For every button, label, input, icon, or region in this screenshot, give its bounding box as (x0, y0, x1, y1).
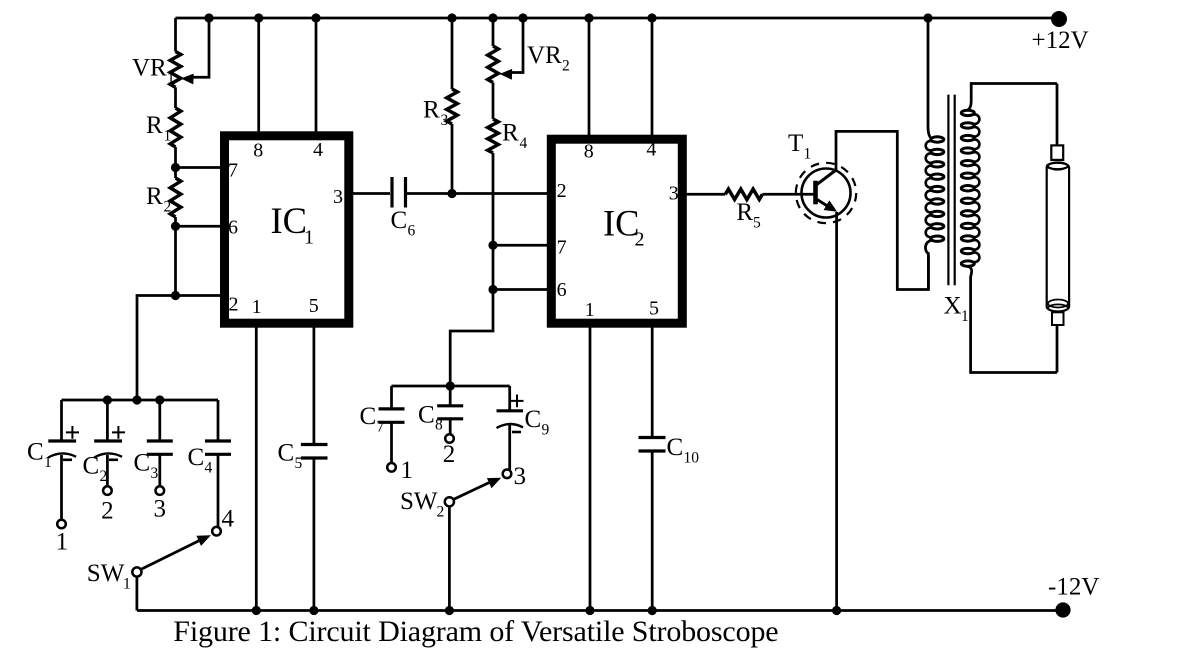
transformer X1 core (948, 95, 954, 286)
wire R5 to T1 base (762, 193, 814, 196)
C4 bottom lead (217, 454, 220, 527)
wire tube bottom lead (1056, 325, 1059, 373)
potentiometer VR2 (488, 46, 499, 83)
svg-text:C: C (418, 401, 435, 428)
transistor T1 emitter diagonal (816, 199, 830, 208)
svg-text:8: 8 (253, 140, 263, 162)
svg-text:C: C (27, 439, 44, 466)
capacitor C9 (electrolytic) top lead (508, 386, 511, 410)
C2 bottom lead (106, 455, 109, 486)
node pin4 on rail (311, 13, 320, 22)
C4 plates (205, 441, 231, 454)
switch SW2 pole circle (445, 497, 454, 506)
wire capacitor bank bus (62, 399, 219, 402)
wire VR1 to R1 (174, 87, 177, 108)
svg-text:3: 3 (151, 465, 159, 482)
wire VR1 top lead (174, 18, 177, 52)
capacitor C3 top lead (158, 400, 161, 440)
svg-text:4: 4 (205, 460, 213, 477)
svg-text:6: 6 (557, 279, 567, 301)
C3 plates (147, 441, 173, 454)
wire IC2 pin 3 to R5 (682, 193, 725, 196)
svg-text:1: 1 (123, 576, 131, 593)
capacitor C6 (392, 177, 406, 208)
C7 plates (379, 409, 405, 422)
wire IC2 pin 7 (493, 244, 552, 247)
svg-text:10: 10 (684, 450, 700, 467)
wire IC2 pin 5 down (651, 323, 654, 437)
capacitor C8 top lead (449, 386, 452, 406)
svg-text:C: C (134, 450, 151, 477)
svg-text:2: 2 (443, 441, 456, 468)
svg-text:1: 1 (804, 146, 812, 163)
node R3 on pin2 wire (447, 189, 456, 198)
node IC2 pin1 on bottom rail (585, 606, 594, 615)
svg-text:3: 3 (333, 186, 343, 208)
node emitter on bottom rail (832, 606, 841, 615)
svg-text:IC: IC (271, 200, 308, 241)
svg-text:2: 2 (100, 468, 108, 485)
svg-text:2: 2 (437, 504, 445, 521)
node pin2 junction (171, 291, 180, 300)
xenon tube body (1047, 163, 1069, 312)
svg-text:VR: VR (132, 55, 167, 82)
node IC2 pin4 on rail (647, 13, 656, 22)
node IC2 pin5 on bottom rail (648, 606, 657, 615)
svg-text:C: C (278, 440, 295, 467)
potentiometer VR1 (170, 52, 181, 88)
C8 bottom lead (449, 419, 452, 434)
wire tube top lead (1056, 84, 1059, 147)
node VR2 on rail (488, 13, 497, 22)
node IC2 pin6 junction (488, 285, 497, 294)
transformer X1 secondary winding (961, 110, 979, 266)
+12V terminal dot (1051, 11, 1067, 27)
wire top +12V rail (176, 17, 1060, 20)
transistor T1 emitter arrowhead (824, 200, 838, 211)
wire IC1 pin 5 down (313, 324, 316, 444)
wire IC1 pin 7 (176, 166, 222, 169)
wire SW2 to bottom rail (448, 506, 451, 610)
svg-text:5: 5 (309, 295, 319, 317)
wire IC1 pin 1 down to rail (255, 324, 258, 611)
svg-text:SW: SW (87, 560, 125, 587)
tube top rim ellipse (1047, 163, 1068, 169)
svg-text:SW: SW (400, 488, 438, 515)
C1 curved plate (48, 453, 76, 457)
wire T1 emitter down to rail (835, 212, 838, 611)
C3 bottom lead (158, 454, 161, 486)
wire transformer secondary top lead (968, 84, 1057, 111)
C2 plus sign (112, 426, 125, 439)
wire VR2 to R4 (492, 83, 495, 120)
svg-text:R: R (423, 97, 440, 124)
wire R4 bottom down to C8 bus (450, 153, 493, 386)
svg-text:4: 4 (520, 135, 528, 152)
wire IC1 pin 8 to rail (257, 18, 260, 135)
svg-text:2: 2 (164, 199, 172, 216)
resistor R4 (488, 119, 499, 153)
switch SW2 arrowhead (487, 478, 501, 489)
svg-text:2: 2 (101, 497, 114, 524)
wire R1 to junction (174, 147, 177, 178)
wire IC1 pin 4 to rail (315, 18, 318, 135)
node pin5 on bottom rail (309, 606, 318, 615)
C1 plus sign (66, 426, 79, 439)
node R3 on rail (447, 13, 456, 22)
tube bottom cap ellipse (1048, 304, 1068, 311)
C3 terminal circle (SW1 pos 3) (156, 486, 165, 495)
node bus at SW2 feed (446, 381, 455, 390)
svg-text:R: R (146, 112, 163, 139)
svg-text:2: 2 (557, 180, 567, 202)
wire R2 bottom (174, 217, 177, 296)
capacitor C2 (electrolytic) top lead (106, 400, 109, 440)
svg-text:4: 4 (222, 506, 235, 533)
svg-text:1: 1 (252, 296, 262, 318)
tube bottom pin cap (1052, 312, 1064, 325)
svg-text:3: 3 (669, 183, 679, 205)
svg-text:1: 1 (167, 70, 175, 87)
resistor R3 (447, 89, 458, 124)
transistor T1 dashed outer circle (796, 163, 856, 223)
wire C5 bottom (313, 458, 316, 611)
wire C10 bottom (651, 451, 654, 611)
wire transformer secondary bottom lead (968, 266, 1057, 372)
C8 plates (437, 406, 463, 419)
wire VR1 wiper (192, 18, 209, 77)
node IC2 pin8 on rail (584, 13, 593, 22)
C9 straight plate (497, 409, 524, 412)
node VR2 wiper on rail (518, 13, 527, 22)
svg-text:4: 4 (646, 139, 656, 161)
svg-text:1: 1 (44, 454, 52, 471)
svg-text:R: R (736, 199, 753, 226)
tube top cap lower edge (1047, 167, 1068, 170)
C9 bottom lead (508, 425, 511, 470)
svg-text:+12V: +12V (1032, 27, 1089, 54)
wire IC2 pin 1 down to rail (589, 323, 592, 611)
C8 terminal circle (SW2 pos 2) (445, 434, 454, 443)
C1 straight plate (48, 439, 76, 442)
svg-text:5: 5 (295, 455, 303, 472)
transformer X1 primary winding (926, 137, 944, 242)
svg-text:Figure 1: Circuit Diagram of V: Figure 1: Circuit Diagram of Versatile S… (173, 615, 778, 648)
svg-text:C: C (360, 403, 377, 430)
svg-text:C: C (188, 444, 205, 471)
svg-text:VR: VR (527, 42, 562, 69)
wire IC2 pin 8 to rail (588, 18, 591, 139)
wire C7-C9 bus (392, 385, 510, 388)
node bus at feed wire (132, 395, 141, 404)
svg-text:7: 7 (377, 419, 385, 436)
svg-text:7: 7 (228, 160, 238, 182)
svg-text:-12V: -12V (1048, 573, 1099, 600)
C2 terminal circle (SW1 pos 2) (103, 486, 112, 495)
svg-text:R: R (502, 120, 519, 147)
wire IC1 pin 2 to capacitor bank (137, 296, 221, 401)
C1 terminal circle (SW1 pos 1) (57, 520, 66, 529)
capacitor C5 (301, 445, 328, 459)
node R2/pin6 junction (171, 222, 180, 231)
wire R3 bottom lead (451, 124, 454, 194)
svg-text:C: C (667, 434, 684, 461)
svg-text:2: 2 (562, 58, 570, 75)
svg-text:4: 4 (313, 139, 323, 161)
wire IC1 pin 6 (176, 225, 222, 228)
wire T1 collector to transformer primary (836, 131, 928, 289)
op-amp IC1 box (225, 136, 349, 323)
-12V terminal dot (1055, 602, 1070, 617)
node SW2 on bottom rail (445, 606, 454, 615)
svg-text:2: 2 (635, 229, 645, 251)
switch SW1 pole circle (132, 567, 141, 576)
svg-text:3: 3 (441, 112, 449, 129)
wire VR2 wiper (511, 18, 523, 73)
svg-text:5: 5 (753, 215, 761, 232)
wire VR2 top lead (492, 18, 495, 46)
node bus at C2 (103, 395, 112, 404)
C2 curved plate (94, 453, 122, 457)
svg-text:6: 6 (408, 223, 416, 240)
wire transformer primary bottom lead (925, 240, 931, 289)
switch SW1 arrowhead (196, 535, 211, 546)
switch SW1 arm (141, 540, 202, 570)
svg-text:C: C (83, 453, 100, 480)
wire IC2 pin 6 (493, 288, 552, 291)
resistor R1 (170, 108, 181, 147)
tube bottom rim ellipse (1048, 300, 1068, 308)
svg-text:1: 1 (56, 529, 69, 556)
tube top pin cap (1051, 145, 1063, 160)
svg-text:9: 9 (542, 422, 550, 439)
wire SW1 to bottom rail (136, 577, 139, 611)
svg-text:3: 3 (154, 495, 167, 522)
wire IC2 pin 4 to rail (651, 18, 654, 139)
transistor T1 collector diagonal (816, 170, 837, 186)
capacitor C10 (639, 438, 666, 452)
node IC2 pin7 junction (488, 241, 497, 250)
C1 bottom lead (60, 455, 63, 520)
node pin1 on bottom rail (252, 606, 261, 615)
node R1/R2/pin7 junction (171, 163, 180, 172)
node bus at C3 (155, 395, 164, 404)
node primary lead on rail (923, 13, 932, 22)
svg-text:1: 1 (304, 227, 314, 249)
capacitor C4 top lead (217, 400, 220, 440)
C9 terminal circle (SW2 pos 3) (503, 470, 512, 479)
svg-text:C: C (391, 207, 408, 234)
resistor R5 (725, 189, 762, 199)
wire transformer primary top lead (928, 18, 932, 139)
resistor R2 (170, 178, 181, 217)
svg-text:8: 8 (584, 141, 594, 163)
C1 minus sign (63, 458, 72, 461)
svg-text:2: 2 (229, 294, 239, 316)
C7 terminal circle (SW2 pos 1) (387, 463, 396, 472)
svg-text:3: 3 (514, 463, 527, 490)
bottom -12V rail (137, 609, 1063, 612)
C9 plus sign (511, 395, 524, 408)
C4 terminal circle (SW1 pos 4) (212, 527, 221, 536)
VR1 wiper arrowhead (181, 74, 194, 85)
op-amp IC2 box (551, 139, 682, 323)
transistor T1 circle (802, 169, 851, 218)
C2 minus sign (109, 458, 118, 461)
transistor T1 base bar (813, 181, 818, 205)
svg-text:C: C (525, 406, 542, 433)
svg-text:1: 1 (401, 457, 414, 484)
wire R3 top lead (451, 18, 454, 89)
C7 bottom lead (390, 422, 393, 463)
C9 curved plate (497, 424, 524, 428)
svg-text:1: 1 (164, 128, 172, 145)
wire IC1 pin 3 (353, 192, 390, 195)
svg-text:5: 5 (649, 298, 659, 320)
C9 minus sign (512, 431, 521, 434)
svg-text:7: 7 (557, 237, 567, 259)
C2 straight plate (94, 439, 122, 442)
svg-text:T: T (788, 130, 803, 157)
capacitor C1 (electrolytic) top lead (60, 400, 63, 440)
node VR1 wiper on rail (204, 13, 213, 22)
wire C6 to IC2 pin 2 (406, 192, 553, 195)
svg-text:8: 8 (435, 417, 443, 434)
node pin8 on rail (254, 13, 263, 22)
VR2 wiper arrowhead (500, 69, 513, 80)
capacitor C7 top lead (390, 386, 393, 408)
svg-text:1: 1 (585, 299, 595, 321)
switch SW2 arm (454, 481, 493, 499)
svg-text:6: 6 (228, 217, 238, 239)
svg-text:R: R (146, 183, 163, 210)
svg-text:X: X (944, 293, 962, 320)
svg-text:1: 1 (961, 308, 969, 325)
